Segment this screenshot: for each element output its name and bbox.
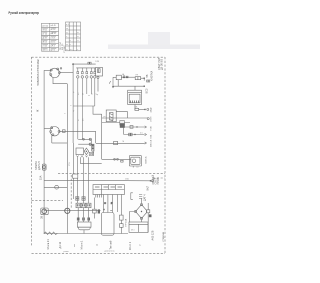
svg-text:Тип акб: Тип акб (110, 240, 113, 249)
dashed vertical inner (70, 175, 72, 209)
connector pin 5 (94, 68, 96, 106)
svg-text:ПРОВ: ПРОВ (157, 177, 160, 184)
wire bus y106 (73, 106, 102, 143)
generator winding taps (77, 218, 90, 221)
connector pin 1 (77, 68, 79, 139)
svg-text:жР 4: жР 4 (51, 45, 55, 47)
fuse F1 (123, 76, 125, 78)
CDI block U3 (128, 86, 145, 110)
svg-text:сЛ 25: сЛ 25 (42, 45, 47, 47)
wire main feed lower (44, 179, 150, 181)
node dot (143, 77, 145, 79)
svg-text:н: н (70, 44, 71, 46)
svg-text:2хЛ 12: 2хЛ 12 (42, 25, 48, 27)
svg-text:ДАТЧ: ДАТЧ (144, 194, 147, 201)
svg-text:жл: жл (78, 93, 80, 95)
fuse chain F3 (120, 215, 124, 233)
wire right feeder (147, 203, 150, 232)
bracket marks (131, 193, 142, 200)
svg-text:чр: чр (96, 94, 98, 96)
dashed harness boundary (32, 57, 166, 253)
indicator lamp on x67.3 (65, 208, 70, 213)
svg-text:ЗАДН: ЗАДН (150, 107, 153, 113)
svg-text:16 сп 1: 16 сп 1 (129, 241, 132, 250)
svg-text:к: к (70, 40, 71, 42)
svg-text:ПР 10А: ПР 10А (124, 218, 127, 226)
handlebar switch block S2 (76, 138, 94, 155)
wire feed bus (73, 63, 96, 65)
svg-text:МАССА: МАССА (150, 139, 153, 147)
battery clamp dark (98, 209, 100, 213)
svg-text:мВ 32: мВ 32 (51, 33, 56, 35)
connector X1 inline squares (88, 62, 89, 64)
svg-text:рама: рама (64, 251, 70, 253)
starter ST (129, 222, 148, 232)
dashed border left (31, 57, 33, 247)
svg-text:рч: рч (104, 116, 106, 118)
connector pin 2 (81, 68, 83, 139)
connector block dark (120, 121, 125, 125)
wire ignition coil feed (102, 158, 132, 160)
svg-text:Мст: Мст (131, 230, 135, 232)
connector sleeve (126, 76, 128, 78)
svg-text:СВ: СВ (37, 65, 40, 69)
ignition coil T1 (129, 156, 141, 168)
dashed corner right inner (153, 177, 165, 179)
connector arrows below (77, 153, 94, 158)
node A junction dot (72, 63, 74, 65)
table 1 extra ink (42, 28, 56, 49)
svg-text:ДАЛЬН: ДАЛЬН (38, 161, 41, 170)
table 2 cell content marks (66, 24, 79, 51)
generator coil contacts (77, 204, 78, 206)
wire drops below bus (72, 106, 74, 143)
wire t3 ground bus (51, 135, 53, 143)
wire horn-lamp-battery y210.6 (44, 210, 100, 212)
bottom labels (47, 230, 165, 250)
svg-text:ДВ 36 ВО: ДВ 36 ВО (160, 59, 163, 70)
svg-text:гб: гб (91, 93, 93, 95)
frame wire left vertical (43, 70, 45, 233)
rectifier VD1 (130, 199, 149, 223)
wire magneto feed (44, 128, 50, 130)
sensor connectors дк (76, 197, 86, 201)
breaker box U2 (135, 77, 141, 80)
generator coils G1 (76, 203, 91, 233)
svg-text:М спл 1: М спл 1 (81, 240, 84, 250)
svg-text:КНОПКА: КНОПКА (150, 71, 153, 81)
right labels mid (152, 175, 160, 185)
svg-text:Св: Св (136, 167, 139, 169)
svg-text:ПЛ ВЕТ: ПЛ ВЕТ (64, 44, 66, 53)
wire t3 right segment (114, 141, 118, 144)
right margin labels top (145, 57, 163, 93)
connector contacts dark (92, 145, 94, 147)
svg-text:АКБ 12В: АКБ 12В (152, 230, 155, 240)
svg-text:ДК 12: ДК 12 (59, 241, 62, 248)
svg-text:кр: кр (104, 202, 106, 204)
wires from fuse box down (93, 195, 122, 219)
svg-text:т: т (77, 49, 78, 51)
svg-text:РУЛЬ: РУЛЬ (93, 149, 95, 155)
svg-text:ЗВ: ЗВ (41, 215, 44, 219)
svg-text:М осв 21: М осв 21 (47, 239, 50, 250)
wire switch output right (60, 72, 73, 74)
connector pin 4 (90, 68, 92, 94)
svg-text:вТ 10: вТ 10 (42, 33, 47, 35)
relay R1 (113, 73, 144, 86)
fuse box FB (93, 185, 124, 198)
horn B2 (41, 208, 48, 215)
svg-text:15А: 15А (40, 175, 43, 180)
wire switch lower lead (53, 78, 67, 84)
svg-text:ген: ген (74, 244, 76, 247)
wire bus y86 (113, 85, 144, 87)
wire riser to bus (93, 106, 102, 114)
svg-text:пН 21: пН 21 (42, 29, 47, 31)
tail lamp HL2 (44, 185, 67, 189)
legend table 2 frame (66, 22, 81, 51)
fuse F2 (135, 108, 139, 110)
wire magneto out (60, 130, 96, 132)
connector pin 3 (86, 68, 88, 94)
svg-text:нБ 11: нБ 11 (51, 41, 56, 43)
legend table 1 frame (42, 23, 59, 51)
dashed divider middle (58, 173, 165, 175)
ground arrow (109, 77, 114, 88)
scan artifact shading top right (148, 32, 170, 48)
terminal wires right (52, 126, 147, 145)
dashed border right (164, 57, 166, 253)
wire header bus (76, 67, 96, 69)
ground bus bottom with resistor (44, 232, 128, 235)
svg-text:кВ 05: кВ 05 (42, 42, 47, 44)
table 1 cell content marks (42, 24, 56, 52)
dashed divider lower-left (32, 199, 64, 201)
svg-text:кр: кр (73, 91, 75, 93)
wire junction drop (72, 64, 74, 106)
svg-text:ЗАЖ: ЗАЖ (37, 59, 40, 65)
svg-text:з: з (66, 36, 67, 38)
svg-text:СТОП: СТОП (151, 116, 153, 122)
svg-text:ВКЛ: ВКЛ (147, 185, 150, 190)
ignition switch S1 (50, 68, 62, 78)
wire relay lower (102, 122, 130, 124)
left margin vertical labels (35, 59, 44, 219)
svg-text:хК 14: хК 14 (51, 29, 56, 31)
connector header pins (77, 68, 96, 139)
wire block to fuse (134, 105, 136, 110)
terminal labels right (150, 107, 153, 147)
svg-text:БСЗ: БСЗ (145, 88, 148, 93)
svg-text:чр: чр (73, 110, 75, 112)
svg-text:ПОВОР: ПОВОР (37, 77, 40, 86)
magneto M1 (44, 127, 96, 144)
regulator B1 (96, 68, 103, 92)
svg-text:Ручной электростартер: Ручной электростартер (9, 11, 40, 15)
svg-text:дБ 35: дБ 35 (42, 38, 47, 40)
svg-text:сторона: сторона (162, 232, 165, 242)
starter relay K1 (102, 110, 150, 159)
wire t2 (123, 127, 125, 135)
svg-text:жл: жл (82, 119, 84, 121)
svg-text:ПОВ: ПОВ (151, 126, 153, 131)
svg-text:двигатель: двигатель (105, 251, 116, 253)
connector hatches (96, 195, 104, 198)
svg-text:юВ 15: юВ 15 (42, 50, 47, 52)
svg-text:зк: зк (88, 95, 90, 97)
battery GB1 (101, 209, 114, 236)
svg-text:ПВ: ПВ (146, 74, 149, 78)
svg-text:п с: п с (70, 49, 73, 51)
svg-text:СВЕЧА: СВЕЧА (144, 156, 147, 164)
wires below switch block (73, 143, 132, 203)
dashed border top (32, 56, 166, 58)
svg-text:св: св (97, 244, 99, 246)
dashed border bottom (32, 252, 166, 254)
pilot lamp HL1 (42, 164, 46, 170)
svg-text:зл: зл (82, 93, 84, 95)
svg-text:12В: 12В (95, 61, 99, 63)
svg-text:аФ 45: аФ 45 (51, 24, 56, 27)
svg-text:нЗ 21: нЗ 21 (51, 37, 56, 39)
connector pair (143, 78, 145, 80)
svg-text:вг: вг (66, 28, 68, 30)
svg-text:кч: кч (78, 119, 80, 121)
wire relay to bus (117, 80, 119, 87)
wire t1 (124, 126, 145, 128)
svg-text:фЛ 2: фЛ 2 (51, 48, 55, 51)
svg-text:ст: ст (140, 244, 142, 246)
svg-text:СТП: СТП (37, 68, 40, 73)
svg-text:чр: чр (111, 202, 113, 204)
wire switch feed (44, 70, 50, 72)
wire long vertical x68.7 (66, 84, 68, 234)
